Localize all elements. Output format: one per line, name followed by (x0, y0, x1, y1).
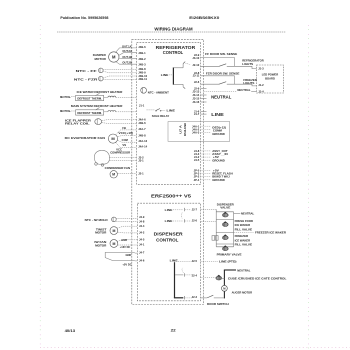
svg-text:LINE: LINE (165, 208, 173, 212)
condenser fan motor (105, 166, 130, 178)
page border dotted right (308, 25, 310, 349)
wire NTC IW MOLD a (116, 217, 137, 219)
wire line PTD (201, 260, 237, 264)
svg-text:J2-6: J2-6 (192, 219, 198, 223)
defrost thermostat 2 (76, 110, 104, 115)
U7A insulated interface box (168, 122, 230, 142)
svg-text:J4-4: J4-4 (139, 224, 145, 228)
svg-text:CONDENSER FAN: CONDENSER FAN (105, 166, 130, 170)
labels U7A signals (212, 125, 226, 136)
wire U7A 1 (202, 125, 211, 127)
defrost thermostat 1 (76, 95, 104, 100)
svg-text:ERF2500++ V5: ERF2500++ V5 (151, 194, 192, 199)
svg-text:22: 22 (171, 329, 176, 333)
svg-text:J1-7: J1-7 (194, 112, 200, 116)
svg-text:J4B-6: J4B-6 (138, 121, 146, 125)
refrigerator control right pins (192, 53, 200, 182)
svg-text:ICE WATER DEFROST HEATER: ICE WATER DEFROST HEATER (77, 90, 124, 94)
svg-text:DEFROST THERM.: DEFROST THERM. (77, 111, 102, 115)
LED power board box (257, 65, 284, 93)
svg-text:AUGER MOTOR: AUGER MOTOR (232, 291, 253, 295)
svg-text:VALVE: VALVE (220, 206, 230, 210)
svg-text:J4B-8: J4B-8 (138, 133, 146, 137)
wire J2-7 to valve ladder (201, 208, 217, 210)
dispenser interior LINE bus bold (170, 258, 192, 299)
svg-text:J1-2: J1-2 (258, 83, 264, 87)
wires JP programming header (202, 171, 211, 180)
svg-text:J4A-13: J4A-13 (138, 139, 147, 143)
damper motor M (93, 52, 119, 62)
svg-text:J4A-14: J4A-14 (138, 145, 147, 149)
svg-text:BOARD: BOARD (265, 76, 275, 80)
svg-text:NTC - IW MOLD: NTC - IW MOLD (85, 218, 108, 222)
svg-text:INSULATED: INSULATED (184, 123, 187, 136)
svg-text:VCC(+16): VCC(+16) (118, 131, 133, 135)
svg-text:J4-6: J4-6 (139, 258, 145, 262)
heater coil 1 (108, 96, 116, 97)
svg-text:LINE: LINE (170, 258, 178, 262)
wire NTC-FZR a (103, 76, 137, 78)
dispenser control left pins J4 group (139, 215, 145, 262)
svg-text:NTC - FF: NTC - FF (76, 69, 97, 73)
svg-text:J4B-3: J4B-3 (138, 62, 146, 66)
svg-text:DEFROST THERM.: DEFROST THERM. (77, 96, 102, 100)
label dispenser valve (217, 202, 235, 209)
wire twist motor b (118, 231, 138, 234)
svg-text:J4B-11: J4B-11 (138, 77, 147, 81)
svg-text:DOOR SWITCH: DOOR SWITCH (207, 302, 229, 306)
svg-text:NEUTRAL: NEUTRAL (237, 88, 250, 92)
NTC - IW MOLD thermistor (85, 217, 117, 222)
svg-text:J4-1: J4-1 (139, 243, 145, 247)
connector pair (212, 236, 218, 241)
dispenser interior LINE J2-7 (165, 208, 191, 212)
svg-text:J4-8: J4-8 (139, 219, 145, 223)
twist motor (95, 227, 118, 235)
labels JP signals (212, 169, 233, 182)
freezer fill valve V3 (222, 234, 228, 239)
ice gate solenoid (216, 275, 224, 280)
svg-text:LINE (PTD): LINE (PTD) (219, 260, 237, 264)
dispenser valve V1 (222, 212, 228, 217)
dispenser interior LINE J2-6 (165, 219, 191, 223)
svg-text:CONTROL: CONTROL (163, 50, 184, 55)
valve ladder top bar (216, 211, 233, 213)
svg-text:LINE: LINE (211, 112, 224, 118)
door switch (201, 295, 224, 298)
svg-text:J2-4: J2-4 (192, 274, 198, 278)
wire damper OUT.2A (118, 49, 136, 56)
wire IW fan GND (117, 238, 137, 242)
svg-text:J3-10: J3-10 (192, 56, 199, 60)
labels display assy signals (212, 149, 228, 162)
svg-text:RELAY COIL: RELAY COIL (65, 122, 90, 126)
svg-text:J4B-1: J4B-1 (138, 51, 146, 55)
svg-text:CONTROL: CONTROL (156, 238, 178, 244)
svg-text:J4A-3: J4A-3 (192, 131, 200, 135)
svg-text:DISPENSER: DISPENSER (154, 231, 184, 237)
wire NTC IW MOLD b (116, 220, 137, 222)
svg-text:LINE: LINE (161, 73, 169, 77)
svg-text:NEUTRAL: NEUTRAL (237, 268, 250, 272)
svg-text:J3-13: J3-13 (192, 90, 199, 94)
mechanical link arc (180, 213, 183, 219)
svg-text:J4A-7: J4A-7 (138, 127, 146, 131)
svg-text:J2-6: J2-6 (194, 80, 200, 84)
wire neutral from ladder (234, 212, 255, 216)
label freezer ice water fill valve (235, 234, 253, 246)
svg-text:WIRING DIAGRAM: WIRING DIAGRAM (154, 27, 192, 32)
svg-text:DC EVAPORATOR FAN: DC EVAPORATOR FAN (65, 136, 105, 140)
sole relay contact (147, 109, 176, 119)
FF door switch sense circuit (201, 52, 257, 69)
wire NTC-FF b (103, 71, 137, 73)
wire NTC-FF a (103, 68, 137, 70)
svg-text:PRIMARY VALVE: PRIMARY VALVE (217, 253, 242, 257)
wire pointer heater1 (96, 93, 100, 95)
svg-text:J1-3: J1-3 (258, 67, 264, 71)
svg-text:COM: COM (122, 138, 128, 142)
svg-text:GND: GND (121, 238, 127, 242)
valve ladder bottom bar (216, 246, 233, 248)
wire U7A 3 (202, 132, 211, 134)
outer board box ERF2500 (132, 40, 204, 305)
svg-text:J4B-10: J4B-10 (138, 74, 147, 78)
svg-text:NEUTRAL: NEUTRAL (60, 109, 71, 113)
wire heater1 to board (71, 96, 136, 99)
svg-text:GND: GND (126, 253, 132, 257)
wire evap fan VCC(+16) (118, 131, 137, 137)
wire J2-6 to valve ladder (201, 220, 217, 222)
wire heater2 to board (71, 110, 136, 113)
title LED POWER BOARD (262, 73, 279, 81)
title DISPENSER CONTROL (154, 231, 184, 243)
svg-text:J2-5: J2-5 (192, 259, 198, 263)
dispenser control box U2 (137, 203, 200, 301)
wire twist motor a (117, 226, 137, 228)
svg-text:VS: VS (122, 143, 126, 147)
svg-text:FILL VALVE: FILL VALVE (235, 227, 253, 231)
wire NTC-FZR b (103, 78, 137, 80)
svg-text:J4-9: J4-9 (139, 215, 145, 219)
ice level arm shape (105, 252, 135, 266)
wire arm a (135, 252, 138, 254)
wire compressor a (109, 156, 136, 158)
svg-text:EI26BS65KX0: EI26BS65KX0 (189, 16, 219, 20)
svg-text:NTC - AMBIENT: NTC - AMBIENT (148, 90, 169, 94)
svg-text:COMPRESSOR: COMPRESSOR (110, 151, 131, 155)
svg-text:SOLE RELAY: SOLE RELAY (152, 114, 170, 118)
svg-text:NEUTRAL: NEUTRAL (60, 95, 71, 99)
svg-text:MOTOR: MOTOR (95, 231, 107, 235)
svg-text:MAIN SYSTEM DEFROST HEATER: MAIN SYSTEM DEFROST HEATER (71, 104, 123, 108)
wire evap fan FB (116, 126, 137, 135)
svg-text:J3-16: J3-16 (192, 100, 199, 104)
wire freezer ice maker (234, 230, 287, 234)
svg-text:+16V DC: +16V DC (120, 245, 131, 249)
svg-text:OUT.2B: OUT.2B (122, 61, 132, 65)
wire evap fan COM (118, 138, 137, 142)
svg-text:M: M (112, 229, 115, 233)
svg-text:J2-7: J2-7 (192, 207, 198, 211)
valve ladder mid bar 2 (216, 232, 233, 234)
page border dotted left (39, 25, 41, 347)
svg-text:LINE: LINE (167, 109, 176, 113)
svg-text:GROUND: GROUND (212, 132, 225, 136)
refrigerator control box U1 (137, 42, 201, 184)
svg-text:J4-5: J4-5 (139, 238, 145, 242)
wires display assy (202, 151, 211, 160)
NTC-FF thermistor connector (76, 68, 104, 73)
refrigerator control left pins J4B group (138, 45, 147, 81)
svg-text:FB: FB (122, 126, 126, 130)
wire relay coil b (102, 122, 137, 125)
ice flapper relay coil (65, 118, 102, 125)
label freezer lights (243, 78, 257, 85)
DC evaporator fan motor (65, 134, 118, 143)
header rule (57, 31, 286, 33)
svg-text:J4B-8: J4B-8 (138, 67, 146, 71)
svg-text:40/13: 40/13 (65, 329, 76, 333)
NTC ambient sensor (141, 87, 169, 94)
svg-text:GROUND: GROUND (212, 158, 225, 162)
svg-text:OUT.1A: OUT.1A (122, 44, 132, 48)
svg-text:LINE: LINE (165, 219, 173, 223)
line pin stub wires (201, 112, 207, 115)
wire arm b (135, 260, 138, 262)
svg-text:LIGHTS: LIGHTS (243, 81, 254, 85)
svg-text:J3-1: J3-1 (138, 159, 144, 163)
svg-text:J3-15: J3-15 (192, 97, 199, 101)
valve ladder mid bar 3 (216, 243, 233, 245)
wire LED neutral (204, 88, 257, 92)
label refrigerator lights (242, 59, 264, 66)
svg-text:OUT.1B: OUT.1B (122, 55, 132, 59)
compressor VCC label (110, 148, 131, 155)
svg-text:J2-3: J2-3 (192, 295, 198, 299)
wire pointer heater2 (96, 108, 100, 111)
svg-text:J4A-6: J4A-6 (138, 117, 146, 121)
refrigerator control left pins J4A/J3/J2 group (138, 117, 147, 175)
svg-text:NEUTRAL: NEUTRAL (211, 94, 231, 100)
wire evap fan VS (116, 142, 137, 147)
svg-text:J4-2: J4-2 (139, 231, 145, 235)
svg-text:J4-5: J4-5 (194, 158, 200, 162)
heater coil 2 (108, 111, 116, 112)
wire compressor b (109, 159, 136, 161)
valve ladder right rail (233, 212, 235, 247)
wire IW fan +16V DC (118, 245, 138, 249)
wire U7A 2 (202, 128, 211, 130)
svg-text:JP-2: JP-2 (194, 175, 200, 179)
NTC-FZR thermistor connector (74, 76, 103, 81)
svg-text:NTC - FZR: NTC - FZR (74, 77, 99, 81)
auger neutral bus (224, 268, 251, 298)
svg-text:J4B-2: J4B-2 (138, 57, 146, 61)
wire damper OUT.2B (115, 61, 136, 65)
wire gate control (201, 277, 216, 279)
svg-text:NEUTRAL: NEUTRAL (241, 212, 254, 216)
svg-text:J2-12: J2-12 (192, 63, 199, 67)
svg-text:FILL VALVE: FILL VALVE (235, 243, 253, 247)
neutral pin stub wires (201, 88, 207, 102)
svg-text:J2-1: J2-1 (138, 171, 144, 175)
wire damper OUT.1A (115, 44, 136, 53)
svg-text:J4B-6: J4B-6 (138, 45, 146, 49)
svg-text:M: M (112, 55, 116, 60)
svg-text:LIGHTS: LIGHTS (242, 62, 253, 66)
page border dotted bottom (40, 347, 350, 349)
svg-text:FZR DOOR SW. SENSE: FZR DOOR SW. SENSE (206, 71, 240, 75)
svg-text:J3-14: J3-14 (192, 93, 199, 97)
FZR door switch sense circuit (201, 71, 257, 86)
svg-text:J1-4: J1-4 (258, 89, 264, 93)
interior line bus (161, 62, 191, 89)
svg-text:Publication No. 5995626598: Publication No. 5995626598 (60, 16, 108, 20)
valve ladder left rail (215, 209, 217, 246)
svg-text:CUBE /CRUSHED ICE GATE CONTROL: CUBE /CRUSHED ICE GATE CONTROL (228, 276, 287, 280)
valve ladder mid bar 1 (216, 218, 233, 220)
primary valve V4 (222, 245, 228, 250)
label fresh food ice water fill valve (235, 219, 254, 231)
fresh food fill valve V2 (222, 221, 228, 226)
svg-text:MOTOR: MOTOR (95, 57, 107, 61)
wire damper OUT.1B (118, 55, 136, 59)
svg-text:J1-1: J1-1 (139, 103, 145, 107)
svg-text:FF DOOR SW. SENSE: FF DOOR SW. SENSE (205, 52, 237, 56)
wire relay coil a (102, 120, 137, 121)
svg-text:J4-7: J4-7 (139, 251, 145, 255)
svg-text:MOTOR: MOTOR (95, 243, 107, 247)
title REFRIGERATOR CONTROL (156, 45, 196, 55)
compressor body (94, 151, 109, 167)
IW fan motor (94, 240, 117, 248)
svg-text:M: M (112, 242, 115, 246)
svg-text:J3-11: J3-11 (193, 74, 200, 78)
auger motor (222, 285, 228, 291)
svg-text:+5V DC: +5V DC (122, 262, 131, 266)
svg-text:U7 A: U7 A (179, 124, 183, 133)
svg-text:OUT.2A: OUT.2A (122, 49, 132, 53)
wire condenser fan (117, 173, 136, 175)
svg-text:FREEZER ICE WAKER: FREEZER ICE WAKER (255, 230, 287, 234)
svg-text:JP-4: JP-4 (194, 178, 200, 182)
svg-text:GROUND: GROUND (212, 178, 225, 182)
svg-text:M: M (112, 173, 115, 177)
dispenser control right pins J2 group (192, 207, 198, 299)
